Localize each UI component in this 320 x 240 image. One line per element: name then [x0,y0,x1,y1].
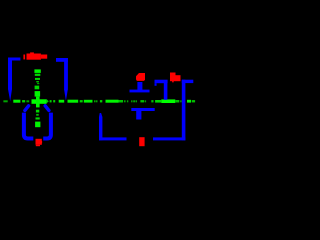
bottom distance bracket left leg (blue) [99,113,102,140]
distance bracket left half (blue) [155,80,168,84]
right parenthesis under axis (blue) [45,106,49,111]
left bracket top-left arm (blue) [8,58,20,61]
label above left bracket (red text) [23,52,47,59]
left bracket left leg with arrow onto axis (blue) [8,58,12,90]
vertical reference line at right (blue) [182,80,186,141]
label f' (red text) [170,73,181,83]
label under bottom bracket (red text) [139,137,144,146]
lens plane (green dashed vertical line) [34,69,40,127]
bottom distance bracket right segment (blue) [153,137,185,140]
optical axis (green dash-dot horizontal line) [3,99,195,104]
label between parentheses (red text) [36,139,43,146]
left parenthesis under axis (blue) [25,106,29,111]
focal point marker above axis (blue inverted T) [137,82,142,91]
left bracket top-right arm (blue) [56,58,68,62]
focal point marker below axis (blue T) [131,108,154,111]
left bracket right leg with arrow onto axis (blue) [64,58,68,90]
distance bracket right half (blue) [182,80,194,83]
focal point label a (red text, mid) [136,73,145,81]
bottom distance bracket left segment (blue) [99,137,127,140]
